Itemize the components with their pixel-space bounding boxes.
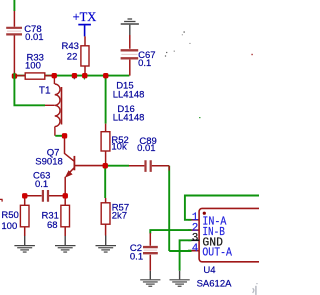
capacitor C67	[121, 35, 139, 76]
stray speck (red)	[251, 54, 252, 55]
svg-text:2k7: 2k7	[112, 210, 127, 221]
ground (R50)	[14, 236, 35, 252]
junction dot (C63 left/R50)	[22, 193, 27, 198]
tick below dot	[73, 78, 75, 79]
svg-text:22: 22	[67, 51, 78, 62]
ground (C2)	[140, 271, 160, 286]
svg-text:R50: R50	[1, 210, 18, 221]
svg-text:U4: U4	[203, 265, 215, 276]
resistor R57	[101, 198, 110, 236]
resistor R50	[20, 196, 29, 236]
svg-text:LL4148: LL4148	[113, 89, 145, 100]
wire: green vertical base junction to R57	[104, 167, 106, 198]
capacitor C63	[27, 190, 63, 202]
junction dot (R33/T1 top)	[52, 73, 57, 78]
ground (R31)	[55, 236, 76, 252]
resistor R43	[81, 36, 89, 74]
junction dot (R43 bottom)	[82, 73, 87, 78]
wire: green vertical to R52	[105, 76, 107, 124]
svg-text:SA612A: SA612A	[197, 279, 233, 290]
wire: IN-A pin 1	[185, 196, 259, 220]
resistor R31	[61, 196, 70, 236]
ground (R57)	[96, 236, 117, 253]
stray speck (green)	[199, 117, 200, 118]
svg-text:OUT-A: OUT-A	[202, 247, 232, 260]
svg-text:68: 68	[47, 220, 58, 231]
wire: GND pin 3 to ground	[180, 240, 192, 270]
wire: T1 bottom to collector junction	[55, 135, 63, 137]
wire: main horizontal rail y=75.6	[14, 75, 130, 77]
svg-text:0.01: 0.01	[137, 143, 156, 154]
stray speck	[184, 31, 185, 32]
stray speck	[166, 52, 167, 53]
wire: vertical green entering top to C78	[13, 0, 15, 11]
junction dot (rail to R52)	[103, 73, 108, 78]
svg-text:10k: 10k	[111, 142, 127, 153]
svg-text:0.01: 0.01	[25, 32, 43, 43]
wire: green overlap on OUT-A pin stub	[188, 250, 192, 252]
wire: green vertical over dot	[13, 73, 15, 79]
junction dot (base/R52/C89)	[103, 163, 108, 168]
svg-text:4: 4	[192, 243, 199, 255]
junction dot (T1 bottom/collector)	[62, 133, 67, 138]
stray speck	[189, 43, 190, 44]
svg-text:S9018: S9018	[35, 156, 62, 167]
capacitor C89	[129, 160, 169, 172]
earth ground (above C67)	[121, 19, 139, 35]
wire: green vertical + tap to T1	[14, 76, 45, 106]
capacitor C2	[143, 233, 158, 271]
resistor R52	[101, 124, 110, 165]
junction dot (emitter/C63/R31)	[63, 193, 68, 198]
power port +TX	[78, 25, 91, 37]
svg-text:100: 100	[25, 60, 41, 71]
svg-text:+TX: +TX	[73, 10, 97, 24]
IC U4 SA612A	[188, 208, 262, 261]
svg-text:0.1: 0.1	[138, 58, 151, 69]
junction dot (rail x74.5)	[72, 73, 77, 78]
svg-text:LL4148: LL4148	[113, 113, 145, 124]
transistor Q7	[65, 137, 104, 196]
wire: base junction to C89	[105, 165, 129, 167]
ground (pin 3)	[170, 271, 190, 286]
faint clipped marks bottom right	[253, 283, 258, 295]
tick below dot	[83, 78, 85, 80]
svg-text:100: 100	[1, 221, 17, 232]
svg-text:0.1: 0.1	[130, 251, 143, 262]
wire: C89 right down to OUT-A (pin4)	[169, 166, 191, 251]
junction dot (C78/R33/tap)	[12, 73, 17, 78]
wire: IN-B pin 2 to C2	[150, 230, 191, 233]
clipped wire stub at left edge	[0, 199, 3, 201]
transformer T1	[45, 76, 62, 136]
stray speck	[174, 51, 175, 52]
capacitor C78	[6, 11, 22, 76]
resistor R33	[17, 73, 53, 79]
svg-text:T1: T1	[39, 86, 51, 97]
stray speck	[182, 34, 183, 35]
stray speck	[165, 55, 166, 56]
svg-text:0.1: 0.1	[35, 179, 48, 190]
